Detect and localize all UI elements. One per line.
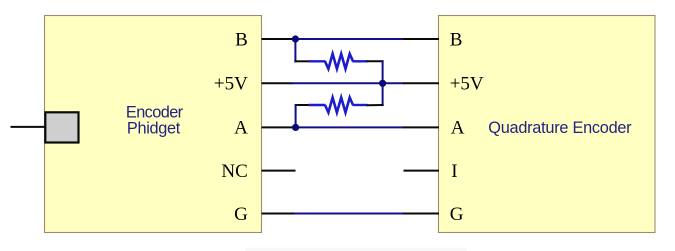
resistor R1 <box>325 54 353 69</box>
wire R1 right lead blue <box>353 60 368 62</box>
pin A of U2 <box>451 118 465 139</box>
pin +5V of U1 <box>214 74 248 95</box>
wire B stub from U1 <box>262 38 297 40</box>
wire A stub to U2 <box>404 126 440 128</box>
wire I stub to U2 <box>404 170 440 172</box>
wire net A <box>295 126 405 128</box>
pin G of U1 <box>234 204 248 225</box>
pin B of U2 <box>450 29 463 50</box>
pin I of U2 <box>451 161 457 182</box>
wire R1 left lead blue <box>309 60 326 62</box>
wire R2 left lead black <box>295 104 310 106</box>
wire +5V stub from U1 <box>262 82 293 84</box>
wire +5V stub to U2 <box>404 82 440 84</box>
resistor R2 <box>325 98 353 113</box>
wire B stub to U2 <box>404 38 440 40</box>
wire R2 right lead black <box>367 104 384 106</box>
encoder phidget box U1 <box>45 16 262 233</box>
junction node A <box>292 124 299 131</box>
wire G stub from U1 <box>262 213 296 215</box>
connector J1 <box>45 112 78 142</box>
svg-text:Phidget: Phidget <box>127 120 181 138</box>
pin +5V of U2 <box>450 74 484 95</box>
pin G of U2 <box>450 204 464 225</box>
wire R2 right vertical from node +5V <box>382 82 384 106</box>
svg-text:Quadrature Encoder: Quadrature Encoder <box>488 119 632 137</box>
wire G stub to U2 <box>403 213 439 215</box>
svg-text:A: A <box>451 118 465 139</box>
wire net G <box>294 213 404 215</box>
svg-text:G: G <box>450 204 464 225</box>
label Encoder Phidget <box>126 103 184 137</box>
wire R1 right lead black <box>367 60 384 62</box>
clipped caption text at bottom <box>245 248 467 251</box>
label Quadrature Encoder <box>488 119 632 137</box>
wire R1 left vertical from node B <box>294 38 296 62</box>
svg-text:B: B <box>235 29 248 50</box>
svg-text:+5V: +5V <box>450 74 484 95</box>
svg-text:G: G <box>234 204 248 225</box>
wire R2 right lead blue <box>353 104 368 106</box>
wire R1 left lead black <box>294 60 309 62</box>
quadrature encoder box U2 <box>439 16 656 233</box>
wire R2 left vertical to node A <box>295 104 297 128</box>
wire A stub from U1 <box>262 126 297 128</box>
wire R1 right vertical to node +5V <box>382 60 384 84</box>
svg-text:B: B <box>450 29 463 50</box>
svg-text:NC: NC <box>221 161 247 182</box>
svg-text:A: A <box>234 118 248 139</box>
svg-text:I: I <box>451 161 457 182</box>
pin A of U1 <box>234 118 248 139</box>
junction node +5V <box>379 80 386 87</box>
wire net +5V <box>292 82 405 84</box>
wire R2 left lead blue <box>309 104 326 106</box>
svg-text:+5V: +5V <box>214 74 248 95</box>
wire to connector J1 <box>11 126 46 128</box>
pin NC of U1 <box>221 161 247 182</box>
wire NC stub from U1 <box>262 170 296 172</box>
wire net B <box>295 38 405 40</box>
junction node B <box>292 35 299 42</box>
pin B of U1 <box>235 29 248 50</box>
